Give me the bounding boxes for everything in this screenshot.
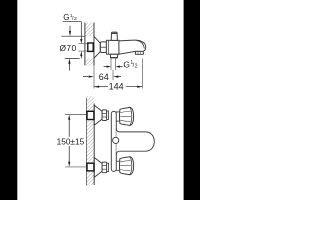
wall right line: [93, 104, 95, 186]
top union nut (plan): [102, 110, 107, 121]
arrow to square top: [80, 36, 82, 43]
wall left line: [84, 23, 86, 66]
left black bar: [0, 0, 17, 200]
underline of G1/2: [63, 21, 82, 23]
dim 64: [83, 76, 121, 78]
wall hatching top: [85, 23, 94, 37]
diverter knob: [111, 32, 117, 40]
top escutcheon cone (plan): [94, 105, 102, 125]
arrow to square bottom (up): [80, 51, 82, 56]
dim 150±15: [65, 114, 90, 116]
right black bar: [184, 0, 200, 200]
aerator: [135, 51, 143, 54]
bottom escutcheon cone (plan): [94, 158, 102, 178]
label G1/2 top: [63, 13, 77, 22]
label G1/2 right with arrow: [104, 66, 123, 68]
svg-text:150±15: 150±15: [57, 137, 85, 147]
bottom outlet (shower connection): [110, 54, 118, 57]
diverter circle (plan): [113, 137, 119, 143]
bottom connection square: [87, 163, 94, 171]
square fitting (G1/2 thread in wall): [88, 43, 93, 51]
handle neck (bottom): [116, 161, 120, 170]
handle neck (top): [116, 112, 120, 121]
leader arrow from G1/2 down: [69, 26, 71, 36]
svg-text:Ø70: Ø70: [60, 43, 77, 53]
top tangent line (O70 top): [61, 35, 85, 37]
O70 lower arrow (up): [68, 58, 70, 70]
square fitting extension lines: [78, 43, 87, 45]
spout (side): [119, 40, 146, 54]
spout (plan) : U shape: [116, 129, 154, 155]
bottom tangent line (O70 bottom): [65, 57, 80, 59]
bottom cross handle (plan): [120, 157, 134, 175]
bottom union nut (plan): [102, 162, 107, 173]
body bar (plan): [111, 111, 116, 171]
top connection square: [87, 111, 94, 119]
valve body (side): [106, 40, 119, 54]
dim 144: [94, 86, 142, 88]
svg-text:G: G: [63, 13, 69, 22]
svg-text:144: 144: [109, 81, 124, 91]
wall left line: [85, 98, 87, 186]
svg-text:64: 64: [99, 72, 109, 82]
wall extension line down: [93, 65, 95, 88]
outlet nipple: [110, 58, 112, 70]
wall hatching bottom: [85, 58, 94, 65]
nipple centerline extension: [112, 70, 114, 80]
spout tip extension line: [141, 59, 143, 89]
escutcheon cone (side): [94, 36, 100, 58]
svg-text:2: 2: [135, 63, 138, 69]
wall hatching: [86, 96, 94, 185]
wall right line: [93, 23, 95, 66]
spout inner line: [137, 40, 145, 48]
union nut (side): [100, 42, 106, 53]
svg-text:2: 2: [74, 16, 77, 22]
svg-text:G: G: [123, 59, 130, 69]
top cross handle (plan): [120, 107, 134, 125]
